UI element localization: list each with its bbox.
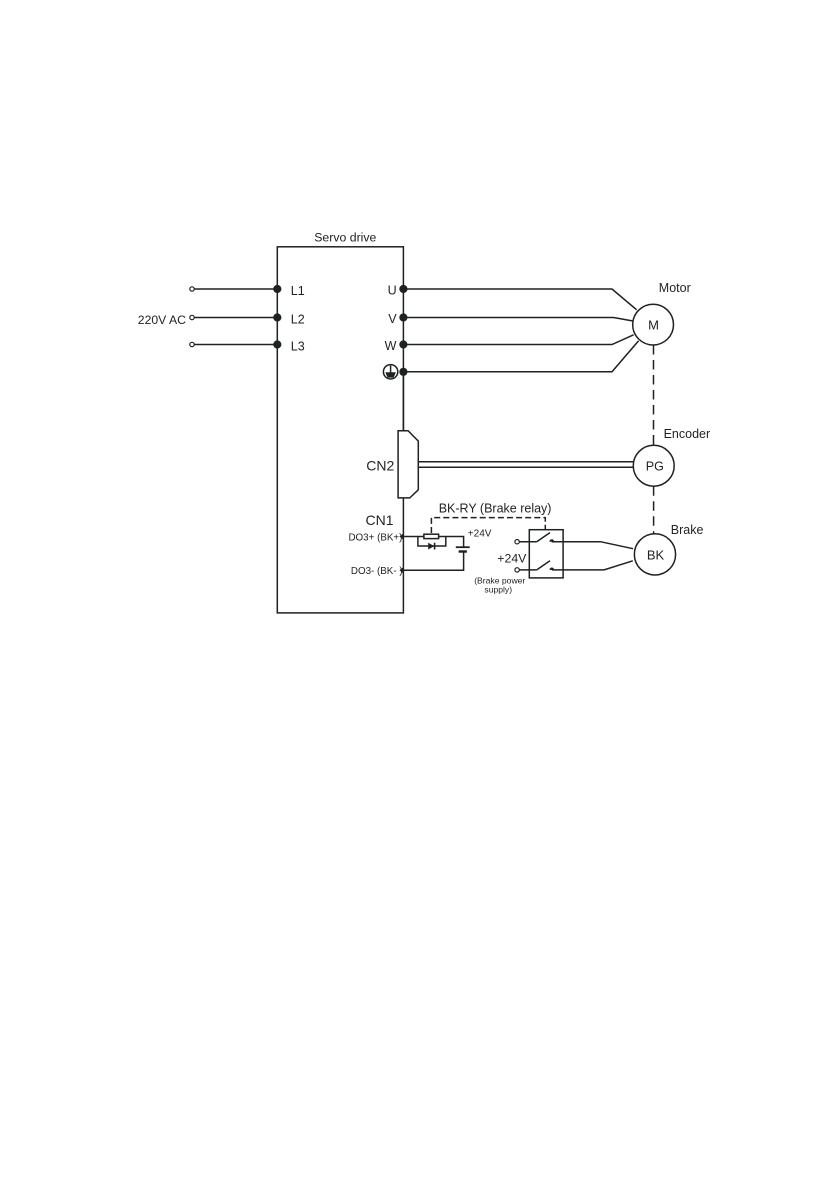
switch contact 2 [519, 561, 554, 570]
CN2 connector [398, 431, 418, 498]
svg-text:V: V [388, 312, 397, 326]
flyback branch wire [418, 537, 446, 547]
pin wedge DO3- [399, 567, 403, 573]
dashed relay linkage [431, 518, 545, 533]
wire L2 input [194, 317, 277, 319]
svg-text:BK: BK [647, 547, 665, 562]
svg-text:CN1: CN1 [366, 512, 394, 528]
flyback diode [428, 543, 434, 550]
wire CN2 stub above connector [402, 376, 404, 431]
junction dot W [399, 340, 407, 348]
ground symbol (protective earth) [383, 365, 397, 379]
wire supply to BK lower [552, 561, 633, 570]
wire L3 input [194, 344, 277, 346]
wire L1 input [194, 288, 277, 290]
svg-text:Encoder: Encoder [664, 427, 711, 441]
servo drive box [277, 247, 403, 613]
junction dot L3 [273, 340, 281, 348]
pin wedge DO3+ [399, 533, 403, 539]
source terminal L1 (open circle) [190, 287, 194, 291]
svg-text:W: W [385, 339, 397, 353]
svg-text:CN2: CN2 [366, 458, 394, 474]
svg-text:+24V: +24V [468, 529, 492, 540]
svg-text:+24V: +24V [497, 551, 527, 565]
PG circle (encoder) [633, 445, 674, 486]
encoder cable (double line) [418, 461, 633, 463]
wire V to motor [403, 318, 633, 322]
dashed shaft motor to PG [653, 345, 655, 445]
BK circle (brake) [634, 534, 675, 575]
wire DO3+ to battery [403, 537, 463, 548]
svg-text:220V AC: 220V AC [138, 313, 186, 327]
junction dot L1 [273, 285, 281, 293]
svg-text:DO3- (BK- ): DO3- (BK- ) [351, 566, 403, 577]
motor circle M [633, 304, 674, 345]
svg-text:M: M [648, 317, 659, 332]
wire supply to BK upper [552, 542, 633, 549]
svg-text:Brake: Brake [671, 523, 704, 537]
svg-text:BK-RY (Brake relay): BK-RY (Brake relay) [439, 502, 552, 516]
junction dot V [399, 313, 407, 321]
svg-text:U: U [388, 284, 397, 298]
wire battery return to DO3- [403, 552, 463, 571]
supply terminal 2 (open circle) [515, 568, 519, 572]
wire W to motor [403, 335, 633, 345]
junction dot PE [399, 368, 407, 376]
svg-text:supply): supply) [484, 584, 512, 594]
wire PE to motor [403, 341, 638, 372]
supply terminal 1 (open circle) [515, 540, 519, 544]
relay coil BK-RY [424, 534, 439, 538]
brake power supply box [529, 530, 563, 578]
svg-text:Motor: Motor [659, 281, 691, 295]
junction dot U [399, 285, 407, 293]
switch contact 1 [519, 533, 554, 542]
svg-text:Servo drive: Servo drive [314, 231, 376, 245]
source terminal L2 (open circle) [190, 315, 194, 319]
source terminal L3 (open circle) [190, 342, 194, 346]
junction dot L2 [273, 313, 281, 321]
svg-text:L2: L2 [291, 313, 305, 327]
svg-text:DO3+ (BK+): DO3+ (BK+) [348, 533, 402, 544]
svg-text:L3: L3 [291, 340, 305, 354]
svg-text:L1: L1 [291, 284, 305, 298]
dashed shaft PG to BK [653, 486, 655, 533]
svg-text:PG: PG [646, 459, 664, 473]
battery +24V [456, 547, 470, 551]
wire U to motor [403, 289, 636, 310]
